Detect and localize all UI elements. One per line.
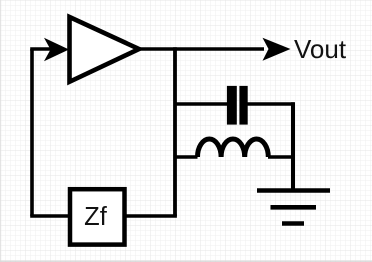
ground symbol — [257, 191, 330, 224]
svg-text:Vout: Vout — [294, 34, 347, 64]
Vout arrowhead — [263, 38, 291, 61]
impedance block Zf — [70, 189, 125, 244]
decorative page edge shading — [0, 261, 372, 262]
wire: input stub from corner into arrowhead — [30, 47, 52, 51]
wire: right vertical down to ground — [291, 102, 295, 190]
wire: inductor branch left — [175, 155, 198, 159]
wire: bottom rail left segment to Zf box — [30, 214, 70, 218]
wire: capacitor branch left — [175, 102, 227, 106]
capacitor right plate — [239, 86, 247, 125]
inductor L1 (3 humps) — [198, 139, 269, 157]
wire: main vertical from output node down to bottom rail — [173, 47, 177, 216]
input arrowhead into op-amp — [44, 38, 69, 61]
wire: output line from op-amp to Vout arrow — [139, 47, 264, 51]
wire: left feedback vertical from input corner down to bottom rail — [30, 49, 34, 216]
wire: capacitor branch right — [248, 102, 295, 106]
svg-text:Zf: Zf — [84, 203, 108, 231]
op-amp (amplifier triangle) — [70, 17, 140, 82]
capacitor left plate — [227, 86, 237, 125]
wire: inductor branch right — [268, 155, 295, 159]
wire: bottom rail right segment from Zf box to main vertical — [125, 214, 177, 218]
